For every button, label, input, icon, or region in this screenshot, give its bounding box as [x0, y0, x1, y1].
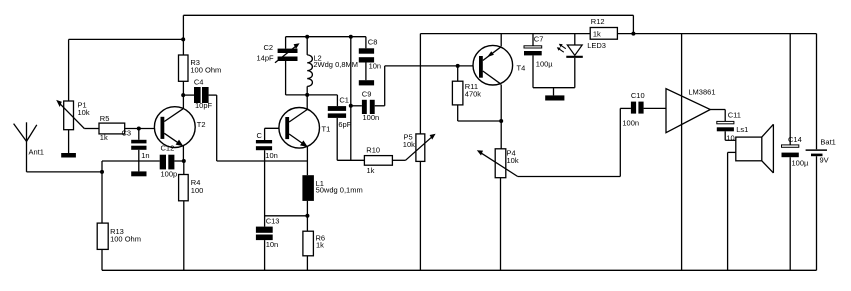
resistor R13	[97, 223, 108, 249]
svg-text:T4: T4	[517, 64, 526, 73]
wire C9 to T4 base	[385, 65, 479, 67]
wire R5 to base node	[125, 128, 161, 130]
svg-text:R12: R12	[591, 17, 605, 26]
capacitor C8	[359, 48, 374, 53]
wire P1 top to R3 node	[69, 38, 184, 40]
wire top rail right drop	[632, 15, 634, 33]
wire L2 bottom stem	[306, 86, 308, 95]
svg-text:14pF: 14pF	[257, 54, 275, 63]
wire speaker return	[728, 151, 736, 153]
wire LED3 bottom stem	[574, 58, 576, 88]
transistor T1	[279, 108, 320, 149]
transistor T2	[154, 107, 195, 148]
resistor R5	[99, 123, 125, 134]
wire C13 node horizontal	[265, 215, 308, 217]
wire C9 right	[375, 105, 385, 107]
wire P4 wiper horizontal	[518, 176, 621, 178]
svg-text:C1: C1	[339, 96, 349, 105]
wire T4 emitter riser	[500, 34, 502, 47]
svg-text:T1: T1	[322, 125, 331, 134]
wire ground stem	[553, 88, 555, 96]
node tank bottom	[305, 93, 309, 97]
wire ground bottom rail	[102, 269, 817, 271]
wire speaker return drop	[727, 152, 729, 270]
svg-text:1k: 1k	[593, 30, 601, 39]
svg-text:2Wdg 0,8MM: 2Wdg 0,8MM	[313, 60, 358, 69]
capacitor C13	[256, 227, 273, 233]
ground below P1	[61, 153, 76, 158]
svg-text:C2: C2	[264, 43, 274, 52]
op-amp U1 LM3861	[666, 89, 710, 133]
antenna Ant1	[26, 122, 28, 172]
svg-text:Ls1: Ls1	[736, 125, 748, 134]
resistor R3	[179, 55, 189, 81]
node C1 C9	[349, 104, 353, 108]
resistor R4	[179, 175, 189, 201]
wire P4 to ground rail	[500, 178, 502, 271]
wire tank top	[286, 36, 366, 38]
svg-text:100: 100	[191, 186, 204, 195]
svg-text:10: 10	[726, 134, 734, 143]
node L1 R6 junction	[305, 214, 309, 218]
wire P5 top column	[419, 34, 421, 134]
wire T4 collector drop	[500, 85, 502, 149]
svg-text:10pF: 10pF	[195, 101, 213, 110]
wire C3 stem lower	[138, 150, 140, 172]
node rail R12	[631, 32, 635, 36]
svg-text:C11: C11	[728, 111, 741, 120]
wire C4 branch to T1 emitter	[217, 160, 308, 162]
svg-text:C10: C10	[631, 91, 645, 100]
wire ground bus to C12	[102, 160, 160, 162]
svg-text:R10: R10	[366, 145, 380, 154]
wire C14 bottom stem	[789, 157, 791, 270]
wire R3 column upper	[182, 15, 184, 55]
wire C1 top stem	[336, 95, 338, 106]
svg-text:100n: 100n	[363, 113, 380, 122]
svg-text:Bat1: Bat1	[820, 138, 835, 147]
wire C4 left	[183, 94, 194, 96]
wire C13 to ground rail	[264, 240, 266, 270]
wire antenna node to R13	[101, 172, 103, 223]
wire tank node column	[350, 37, 352, 161]
svg-text:C9: C9	[362, 90, 372, 99]
wire C2 bottom stem	[285, 61, 287, 95]
svg-text:1k: 1k	[316, 241, 324, 250]
svg-text:C14: C14	[788, 135, 802, 144]
node tank top right	[349, 35, 353, 39]
svg-text:C7: C7	[534, 35, 544, 44]
wire antenna horizontal	[27, 171, 103, 173]
trimmer capacitor C2	[278, 49, 298, 53]
svg-text:50wdg 0,1mm: 50wdg 0,1mm	[316, 185, 363, 194]
wire T2 emitter drop	[182, 146, 184, 161]
svg-text:10n: 10n	[266, 240, 279, 249]
wire tank bottom	[286, 94, 338, 96]
svg-text:10n: 10n	[369, 62, 382, 71]
resistor R12	[590, 28, 617, 40]
svg-text:1k: 1k	[100, 133, 108, 142]
svg-text:C13: C13	[266, 217, 280, 226]
battery Bat1	[806, 149, 827, 151]
capacitor C14 electrolytic	[782, 145, 799, 147]
node R3 top	[181, 37, 185, 41]
node base T2	[137, 127, 141, 131]
wire supply rail right segment	[617, 33, 816, 35]
wire P1 to ground symbol	[68, 130, 70, 153]
wire C11 top stem	[724, 110, 726, 122]
svg-text:1k: 1k	[367, 166, 375, 175]
svg-text:10k: 10k	[507, 156, 519, 165]
svg-text:100 Ohm: 100 Ohm	[190, 66, 221, 75]
svg-text:100µ: 100µ	[536, 60, 554, 69]
wire antenna node riser	[101, 161, 103, 172]
svg-text:100 Ohm: 100 Ohm	[110, 235, 141, 244]
svg-text:LED3: LED3	[587, 41, 606, 50]
wire C11 to speaker	[725, 139, 736, 141]
wire C9 riser	[384, 66, 386, 106]
node T4 collector	[499, 119, 503, 123]
wire R11 to T4 collector node	[458, 120, 502, 122]
ground below C7 LED3	[545, 95, 564, 100]
svg-text:Ant1: Ant1	[29, 148, 44, 157]
svg-text:100µ: 100µ	[792, 159, 810, 168]
svg-text:9V: 9V	[820, 156, 829, 165]
resistor R11	[452, 81, 463, 105]
wire C1 to R10	[337, 159, 364, 161]
capacitor C3	[131, 140, 146, 144]
wire battery bottom stem	[816, 156, 818, 270]
resistor R6	[303, 231, 314, 256]
wire T1 base	[265, 127, 286, 129]
wire C9 left	[351, 105, 362, 107]
wire P1 wiper to R5	[84, 128, 99, 130]
node tank top L2	[305, 35, 309, 39]
wire LM386 supply pin	[681, 34, 683, 271]
wire battery top stem	[816, 34, 818, 150]
wire emitter node to R4	[183, 161, 185, 175]
wire C12 to emitter node	[174, 160, 183, 162]
wire node to R6	[306, 216, 308, 231]
wire P1 top drop	[68, 39, 70, 101]
svg-text:470k: 470k	[465, 90, 482, 99]
svg-text:C4: C4	[194, 78, 204, 87]
wire P5 to ground rail	[419, 161, 421, 270]
transistor T4	[473, 45, 513, 85]
wire emitter to L1	[306, 161, 308, 175]
wire LM386 output	[710, 109, 725, 111]
wire C4 branch drop	[216, 95, 218, 161]
wire C2 top stem	[285, 37, 287, 49]
svg-text:6pF: 6pF	[338, 120, 351, 129]
ground below C8	[359, 80, 374, 85]
svg-text:R5: R5	[100, 114, 110, 123]
wire P4 wiper riser	[619, 108, 621, 176]
wire C1 bottom stem	[336, 118, 338, 160]
wire C11 bottom stem	[724, 131, 726, 140]
wire L1 to node	[306, 201, 308, 216]
wire R4 to ground rail	[183, 201, 185, 270]
wire C8 drop	[365, 37, 367, 49]
wire C4 right	[209, 94, 217, 96]
svg-text:LM3861: LM3861	[688, 88, 715, 97]
svg-text:C8: C8	[368, 37, 378, 46]
svg-text:100n: 100n	[622, 119, 639, 128]
LED LED3	[567, 45, 582, 55]
wire R3 bottom to T2 collector	[182, 81, 184, 108]
wire R13 to ground rail	[101, 249, 103, 270]
wire +V top rail	[183, 14, 633, 16]
capacitor C7 electrolytic	[524, 46, 542, 48]
capacitor C12	[160, 155, 166, 170]
potentiometer P5	[416, 134, 425, 162]
svg-text:C12: C12	[161, 144, 175, 153]
wire R11 bottom stem	[457, 105, 459, 121]
wire T1 collector riser	[306, 95, 308, 109]
wire LED3 top stem	[574, 34, 576, 45]
resistor R10	[364, 156, 392, 166]
capacitor C9	[362, 100, 367, 114]
wire R6 to ground rail	[306, 256, 308, 270]
svg-text:10k: 10k	[78, 108, 90, 117]
wire C10 left	[620, 107, 631, 109]
wire C7 LED3 bottom	[533, 87, 575, 89]
wire C5 bottom stem	[264, 150, 266, 226]
ground below C3	[131, 171, 146, 176]
inductor L1	[302, 175, 314, 201]
node T4 base	[456, 64, 460, 68]
wire L2 top stem	[306, 37, 308, 55]
wire supply rail left segment	[420, 33, 590, 35]
wire C3 stem upper	[138, 129, 140, 140]
wire C5 top stem	[264, 128, 266, 140]
svg-text:C: C	[257, 131, 263, 140]
wire C7 top stem	[532, 34, 534, 46]
svg-text:100p: 100p	[161, 170, 178, 179]
wire C10 right	[644, 107, 666, 109]
svg-text:1n: 1n	[141, 151, 149, 160]
wire C8 to ground symbol	[365, 63, 367, 81]
potentiometer P4	[495, 149, 506, 178]
node T2 emitter	[182, 159, 186, 163]
wire R11 top stem	[457, 66, 459, 81]
capacitor C11 electrolytic	[717, 121, 734, 123]
wire C14 top stem	[789, 34, 791, 145]
capacitor C4	[194, 87, 201, 103]
svg-text:10n: 10n	[265, 151, 278, 160]
inductor L2	[307, 55, 312, 87]
node R3 bottom	[181, 93, 185, 97]
wire T1 emitter drop	[306, 147, 308, 161]
speaker Ls1	[736, 137, 762, 161]
svg-text:T2: T2	[197, 120, 206, 129]
node antenna junction	[100, 170, 104, 174]
capacitor C1	[328, 106, 346, 111]
svg-text:10k: 10k	[403, 140, 415, 149]
wire C7 bottom stem	[532, 55, 534, 87]
svg-text:C3: C3	[122, 128, 132, 137]
capacitor C10	[631, 102, 636, 114]
capacitor C5 base	[256, 140, 272, 143]
wire R10 to P5 wiper	[392, 159, 405, 161]
potentiometer P1	[64, 101, 74, 130]
